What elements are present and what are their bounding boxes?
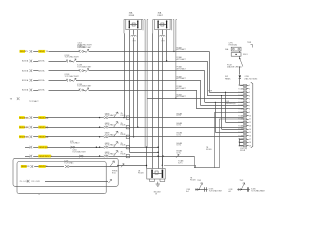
svg-text:AT/TCHACT: AT/TCHACT	[177, 48, 186, 51]
svg-text:4: 4	[249, 95, 250, 97]
svg-text:IC/TC: IC/TC	[177, 125, 182, 127]
svg-text:TC/TCHACT: TC/TCHACT	[70, 142, 80, 145]
svg-text:6: 6	[249, 102, 250, 104]
svg-text:F/DUB: F/DUB	[206, 149, 212, 151]
svg-text:B203 A: B203 A	[38, 60, 45, 63]
svg-text:1: 1	[249, 85, 250, 87]
svg-text:16: 16	[249, 135, 251, 137]
svg-text:F/DUB: F/DUB	[121, 134, 126, 136]
svg-text:F77: F77	[162, 41, 165, 43]
svg-text:2: 2	[249, 89, 250, 91]
svg-text:11: 11	[249, 119, 251, 121]
svg-text:TC/TCHACTGMT: TC/TCHACTGMT	[77, 65, 92, 68]
svg-text:TC/TCHACTGMT: TC/TCHACTGMT	[77, 85, 92, 88]
svg-text:A-1: A-1	[229, 190, 232, 193]
svg-text:TN/F: TN/F	[197, 180, 201, 182]
svg-text:F/DUB: F/DUB	[138, 173, 144, 175]
svg-text:F/DUB: F/DUB	[121, 125, 126, 127]
svg-text:F30/1: F30/1	[243, 54, 248, 56]
svg-text:14: 14	[249, 129, 251, 131]
svg-text:19: 19	[249, 146, 251, 148]
svg-text:IC/TC: IC/TC	[177, 134, 182, 136]
svg-text:AT/TCHACT: AT/TCHACT	[177, 95, 186, 98]
svg-text:IC/TC: IC/TC	[178, 163, 183, 165]
svg-text:F77: F77	[133, 41, 136, 43]
svg-text:B203 A: B203 A	[38, 69, 45, 72]
svg-text:15: 15	[249, 132, 251, 134]
svg-text:B203 A: B203 A	[38, 79, 45, 82]
svg-text:TC/TCHACTGMT: TC/TCHACTGMT	[65, 75, 80, 78]
svg-text:18: 18	[249, 142, 251, 144]
svg-text:IC/TC: IC/TC	[177, 115, 182, 117]
svg-text:(TAIL NO SIDE): (TAIL NO SIDE)	[245, 77, 258, 80]
svg-text:8: 8	[249, 109, 250, 111]
svg-text:F/DUB: F/DUB	[121, 115, 126, 117]
svg-text:TC/TCHACTGMT: TC/TCHACTGMT	[72, 151, 85, 154]
svg-text:3: 3	[249, 92, 250, 94]
svg-text:F/DUB: F/DUB	[240, 150, 246, 152]
svg-text:TC/TCHAC: TC/TCHAC	[64, 161, 74, 164]
svg-text:TC/TCHACT: TC/TCHACT	[29, 100, 39, 103]
svg-text:12: 12	[249, 122, 251, 124]
svg-text:A-1: A-1	[186, 190, 189, 193]
svg-text:B203 A: B203 A	[22, 60, 29, 63]
svg-text:B203 A: B203 A	[38, 89, 45, 92]
svg-text:AT/TCHACT: AT/TCHACT	[177, 58, 186, 61]
svg-text:RED/B: RED/B	[39, 51, 46, 53]
svg-text:13: 13	[249, 125, 251, 127]
svg-text:PRESS/B (M): PRESS/B (M)	[225, 103, 236, 105]
svg-text:9: 9	[249, 112, 250, 114]
svg-text:B203 A: B203 A	[22, 79, 29, 82]
svg-text:F/DUB: F/DUB	[121, 145, 126, 147]
svg-text:TJ: TJ	[38, 194, 40, 196]
svg-text:F30/8: F30/8	[129, 15, 135, 17]
svg-text:TRK/B (M): TRK/B (M)	[228, 45, 237, 47]
svg-text:F/DUB: F/DUB	[190, 180, 196, 182]
svg-text:IC/TC: IC/TC	[177, 145, 182, 147]
svg-text:P.L. LOCK: P.L. LOCK	[20, 181, 30, 183]
svg-text:AT/TCHACT: AT/TCHACT	[177, 68, 186, 71]
svg-text:RED/B (04): RED/B (04)	[39, 147, 49, 149]
svg-text:TC/TCHACTGMT: TC/TCHACTGMT	[209, 189, 222, 192]
svg-text:TC/TCHACTGMT: TC/TCHACTGMT	[65, 56, 80, 59]
svg-text:PANEL: PANEL	[225, 77, 231, 80]
svg-text:RED/B W/DCLK: RED/B W/DCLK	[39, 156, 53, 158]
svg-text:AT/TCHACT: AT/TCHACT	[177, 87, 186, 90]
svg-text:10: 10	[249, 115, 251, 117]
svg-text:B203 A: B203 A	[22, 89, 29, 92]
svg-text:F/DUB: F/DUB	[121, 154, 126, 156]
svg-text:TN/R: TN/R	[247, 42, 252, 44]
svg-text:IC/TC: IC/TC	[176, 152, 181, 154]
svg-text:B203 A: B203 A	[22, 69, 29, 72]
svg-text:5: 5	[249, 99, 250, 101]
svg-text:F30/7: F30/7	[158, 15, 164, 17]
svg-text:17: 17	[249, 139, 251, 141]
svg-text:TC/TCHA/CHAMT: TC/TCHA/CHAMT	[251, 189, 265, 192]
svg-text:(GAUGE CHECK): (GAUGE CHECK)	[227, 66, 242, 69]
svg-text:W: W	[155, 193, 157, 195]
svg-text:TC/TCHACTGMT: TC/TCHACTGMT	[77, 46, 92, 49]
svg-text:AT/TCHACT: AT/TCHACT	[177, 77, 186, 80]
svg-text:P/L LOCK: P/L LOCK	[32, 181, 41, 183]
svg-text:7: 7	[249, 105, 250, 107]
svg-text:TN/F: TN/F	[240, 180, 244, 182]
